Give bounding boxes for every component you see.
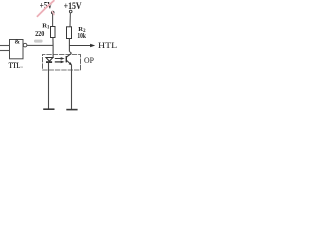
wire node A down to LED anode xyxy=(52,45,54,57)
gate U1 input wire 1 xyxy=(0,45,10,47)
svg-text:OP: OP xyxy=(84,56,94,65)
phototransistor Q1 base bar xyxy=(65,56,67,62)
wire +15V terminal to R2 xyxy=(69,13,71,27)
resistor R1 body xyxy=(51,27,56,38)
ground left bar xyxy=(43,108,54,110)
phototransistor Q1 emitter xyxy=(67,61,72,65)
gate U1 TTL NAND body xyxy=(10,40,24,59)
wire emitter to ground xyxy=(71,65,73,109)
wire node B to HTL output xyxy=(69,45,91,47)
light arrow 2 xyxy=(55,61,63,63)
LED D1 triangle xyxy=(46,58,53,62)
wire LED cathode to ground xyxy=(48,62,50,109)
svg-text:HTL: HTL xyxy=(98,40,117,50)
gate U1 output inversion bubble xyxy=(23,43,27,47)
ground right bar xyxy=(66,109,77,111)
period after TTL xyxy=(22,67,23,68)
svg-text:TTL: TTL xyxy=(9,61,21,70)
svg-text:10k: 10k xyxy=(77,31,86,40)
red annotation tail near terminal xyxy=(52,11,54,15)
wire node B jog to collector xyxy=(69,52,71,54)
resistor R2 body xyxy=(67,27,72,39)
wire gate output to node A xyxy=(27,44,54,46)
LED D1 cathode bar xyxy=(46,61,52,63)
faint smudge under 220 xyxy=(34,40,43,43)
svg-text:&: & xyxy=(15,39,21,46)
gate U1 input wire 2 xyxy=(0,50,10,52)
+15V supply terminal circle xyxy=(69,10,72,13)
svg-text:+15V: +15V xyxy=(64,2,82,12)
red annotation slash xyxy=(37,0,55,17)
light arrow 1 xyxy=(55,58,63,60)
svg-text:220: 220 xyxy=(35,29,44,38)
wire R1 to node A xyxy=(52,38,54,46)
phototransistor Q1 emitter arrowhead xyxy=(69,62,72,65)
+5V supply terminal circle xyxy=(51,11,54,14)
wire R2 to node B xyxy=(68,39,70,52)
phototransistor Q1 collector xyxy=(67,53,72,57)
optocoupler OP dashed box xyxy=(43,55,81,71)
HTL arrowhead xyxy=(90,44,95,47)
wire +5V terminal to R1 xyxy=(52,14,54,27)
